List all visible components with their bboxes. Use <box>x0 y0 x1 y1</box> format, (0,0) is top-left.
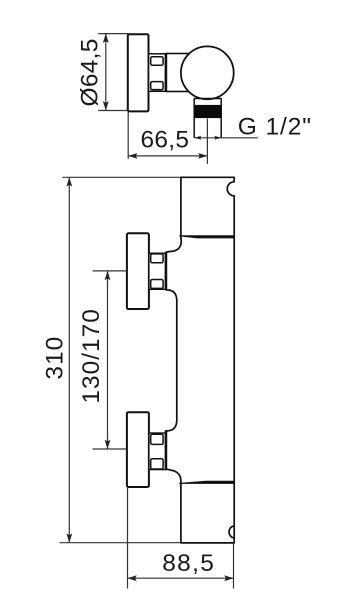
extension line left (88,5) <box>127 488 129 589</box>
arrow at right thread wall <box>214 136 221 140</box>
arrow at left thread wall <box>194 136 201 140</box>
top cap bottom edge (wedge) <box>179 235 234 238</box>
svg-text:66,5: 66,5 <box>140 127 189 154</box>
nut flat lower <box>151 82 163 90</box>
arrow right <box>198 153 207 159</box>
mixer body outline <box>166 177 234 543</box>
extension line left (66,5) <box>127 112 129 159</box>
bottom notch bump on right edge <box>229 526 234 538</box>
lower nut flat top <box>151 434 163 444</box>
extension line top (310) <box>62 176 181 178</box>
upper nut body <box>149 253 166 289</box>
upper wall plate <box>127 233 149 309</box>
arrow right <box>224 575 233 581</box>
extension line lower union centre (130/170) <box>93 448 127 450</box>
wall plate (side view) <box>128 34 149 111</box>
arrow down <box>66 534 72 543</box>
extension line bottom (Ø64,5) <box>98 110 128 112</box>
svg-text:G 1/2": G 1/2" <box>238 114 312 141</box>
extension line top (Ø64,5) <box>98 33 128 35</box>
nut flat upper <box>151 57 163 65</box>
svg-text:88,5: 88,5 <box>162 550 215 577</box>
svg-text:310: 310 <box>41 336 68 380</box>
dimension line 130/170 <box>107 271 109 449</box>
arrow left <box>128 575 137 581</box>
dimension line 310 <box>68 177 70 542</box>
leader line G 1/2 <box>194 137 258 139</box>
threaded band (black) <box>194 105 222 118</box>
extension line bottom (310) <box>60 542 182 544</box>
dimension line 88,5 <box>128 577 234 579</box>
dimension line 66,5 <box>128 155 207 157</box>
valve body (top view) <box>166 54 199 92</box>
outlet pipe right wall <box>220 99 222 138</box>
arrow left <box>128 153 137 159</box>
upper nut flat top <box>151 254 163 263</box>
dimension line Ø64,5 <box>105 34 107 111</box>
arrow down <box>105 440 111 449</box>
outlet pipe left wall <box>193 99 195 138</box>
extension line right (88,5) <box>233 544 235 589</box>
lower nut flat bottom <box>151 459 163 469</box>
extension line pipe centre (66,5) <box>206 119 208 164</box>
bottom cap top edge (wedge) <box>179 481 234 484</box>
nut right thick edge <box>165 53 168 92</box>
nut body (top view) <box>149 54 167 92</box>
control knob sphere <box>181 46 234 99</box>
lower wall plate <box>127 412 149 487</box>
svg-text:130/170: 130/170 <box>78 308 105 404</box>
arrow up <box>105 271 111 280</box>
lower nut thick right edge <box>165 430 168 470</box>
upper nut flat bottom <box>151 280 163 289</box>
extension line upper union centre (130/170) <box>93 270 127 272</box>
svg-text:Ø64,5: Ø64,5 <box>76 38 103 106</box>
arrow down <box>103 101 109 110</box>
arrow up <box>103 34 109 43</box>
outlet pipe top edge <box>194 98 222 100</box>
lower nut body <box>149 433 166 470</box>
upper nut thick right edge <box>165 252 168 290</box>
arrow up <box>66 177 72 186</box>
